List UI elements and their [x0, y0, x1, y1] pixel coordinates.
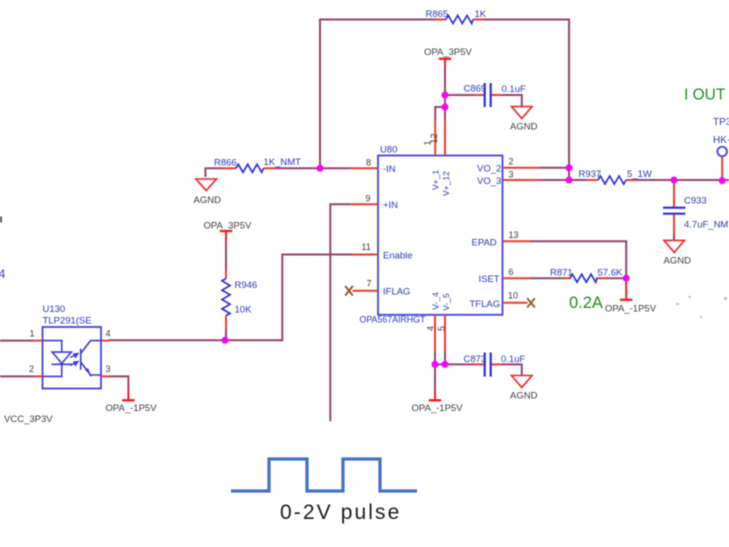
- svg-text:VO_3: VO_3: [477, 176, 501, 187]
- svg-text:14: 14: [0, 267, 6, 281]
- svg-text:4: 4: [426, 326, 436, 331]
- svg-text:2: 2: [509, 157, 514, 167]
- svg-text:4: 4: [106, 329, 111, 339]
- node junction C869 upper: [442, 92, 449, 99]
- svg-text:IFLAG: IFLAG: [383, 286, 410, 297]
- power OPA_-1P5V at R871: [605, 278, 657, 314]
- svg-text:0.2A: 0.2A: [569, 294, 603, 312]
- wire U130 pin2 input: [0, 375, 35, 377]
- svg-text:R866: R866: [214, 158, 237, 169]
- U80 pin 11 Enable: [352, 242, 413, 261]
- svg-text:TP3: TP3: [713, 117, 729, 128]
- U130 pin numbers: [29, 329, 111, 375]
- svg-text:ISET: ISET: [479, 274, 500, 285]
- op-amp U80 body: [360, 145, 503, 325]
- U80 pin 7 IFLAG with no-connect X: [345, 279, 410, 298]
- power OPA_-1P5V below U80: [412, 389, 464, 414]
- node junction VO_3: [566, 177, 573, 184]
- svg-text:3: 3: [106, 364, 111, 374]
- node junction R946 bottom: [222, 337, 229, 344]
- svg-text:57.6K: 57.6K: [598, 268, 623, 279]
- svg-text:1K: 1K: [475, 9, 487, 20]
- wire Enable net from U130 pin4: [109, 255, 352, 341]
- wire feedback loop top (R865 net): [320, 20, 569, 181]
- wire ISET to R871: [530, 277, 564, 279]
- wire U130 pin1 input: [0, 340, 35, 342]
- U80 pin 2 VO_2: [477, 157, 540, 175]
- wire +IN net vertical: [330, 204, 350, 421]
- wire U130 pin3 to power: [109, 376, 129, 390]
- svg-text:0.1uF: 0.1uF: [502, 84, 526, 95]
- svg-text:10: 10: [508, 291, 518, 301]
- wire R937 to output node: [635, 179, 729, 181]
- svg-text:AGND: AGND: [664, 256, 692, 267]
- svg-text:TFLAG: TFLAG: [470, 299, 501, 310]
- svg-text:13: 13: [509, 230, 519, 240]
- svg-text:V+_12: V+_12: [441, 171, 451, 196]
- svg-text:I OUT: I OUT: [684, 87, 726, 104]
- resistor R937: [579, 169, 652, 184]
- ground AGND near C869: [510, 107, 538, 133]
- node junction R866/pin8/feedback: [317, 165, 324, 172]
- pulse waveform 0-2V: [231, 459, 417, 491]
- resistor R866: [214, 157, 301, 172]
- U80 pin 4 V- bottom: [426, 292, 441, 351]
- svg-text:AGND: AGND: [510, 122, 538, 133]
- svg-text:EPAD: EPAD: [472, 237, 497, 248]
- U80 pin 5 V- bottom: [436, 293, 451, 351]
- wire U80 bottom pins to C873 net: [435, 351, 522, 390]
- capacitor C933 vertical: [663, 184, 729, 241]
- svg-text:11: 11: [362, 242, 371, 252]
- svg-text:1: 1: [30, 329, 35, 339]
- node junction TP: [719, 177, 726, 184]
- svg-text:V+_1: V+_1: [431, 170, 441, 190]
- svg-text:12: 12: [429, 133, 439, 143]
- U80 pin 9 +IN: [351, 194, 399, 212]
- svg-text:C873: C873: [464, 354, 487, 365]
- power OPA_3P5V above C869: [424, 47, 473, 67]
- svg-text:2: 2: [29, 364, 34, 374]
- U130 LED (input diode): [43, 341, 73, 377]
- watermark specks: [676, 296, 727, 318]
- svg-text:-IN: -IN: [383, 164, 396, 175]
- capacitor C869: [464, 83, 526, 107]
- svg-text:0-2V pulse: 0-2V pulse: [280, 501, 401, 524]
- svg-text:V-_4: V-_4: [430, 292, 440, 310]
- svg-text:R937: R937: [579, 169, 602, 180]
- U130 pin stubs: [35, 341, 109, 377]
- svg-text:HK-3: HK-3: [713, 135, 729, 146]
- svg-text:0.1uF: 0.1uF: [501, 354, 525, 365]
- U80 pin 12 V+ top: [429, 119, 451, 196]
- node junction U80 pin4: [432, 361, 439, 368]
- wire C869 net: [435, 66, 522, 119]
- capacitor C873: [464, 353, 526, 377]
- wire VO_3 to R937: [540, 179, 589, 181]
- svg-text:OPA567AIRHGT: OPA567AIRHGT: [360, 315, 426, 325]
- wire R871 to EPAD junction: [606, 277, 626, 279]
- svg-text:5: 5: [436, 326, 446, 331]
- U80 pin 10 TFLAG with no-connect X: [470, 291, 535, 310]
- svg-text:4.7uF_NMT: 4.7uF_NMT: [684, 220, 729, 231]
- svg-text:OPA_-1P5V: OPA_-1P5V: [106, 403, 158, 414]
- ground AGND near R866: [194, 179, 222, 206]
- svg-text:R946: R946: [235, 280, 258, 291]
- node junction R871/EPAD: [623, 275, 630, 282]
- svg-text:Enable: Enable: [383, 250, 413, 261]
- svg-text:OPA_-1P5V: OPA_-1P5V: [412, 403, 464, 414]
- svg-text:5_1W: 5_1W: [627, 169, 652, 180]
- wire C933 branch: [673, 180, 675, 206]
- U80 pin 3 VO_3: [477, 170, 540, 187]
- svg-text:+IN: +IN: [383, 200, 398, 211]
- wire EPAD net: [530, 241, 626, 278]
- svg-text:U130: U130: [43, 304, 66, 315]
- test point TP3 HK circle: [713, 117, 729, 181]
- svg-text:C933: C933: [684, 196, 707, 207]
- U130 light arrows: [71, 354, 78, 366]
- wire VO_2: [540, 167, 569, 169]
- U80 pin 13 EPAD: [472, 230, 531, 248]
- svg-text:10K: 10K: [235, 305, 253, 316]
- power OPA_3P5V above R946: [204, 221, 253, 242]
- node junction U80 pin5: [442, 361, 449, 368]
- node junction C933: [671, 177, 678, 184]
- power OPA_-1P5V at U130 pin3: [106, 390, 158, 415]
- resistor R871: [550, 268, 623, 283]
- svg-text:R871: R871: [550, 268, 573, 279]
- resistor R946 vertical: [222, 241, 257, 341]
- svg-text:AGND: AGND: [510, 391, 538, 402]
- svg-text:3: 3: [509, 170, 514, 180]
- svg-text:R865: R865: [426, 9, 449, 20]
- optocoupler U130 body: [43, 304, 102, 389]
- node junction pin1 branch: [442, 104, 449, 111]
- svg-text:V-_5: V-_5: [441, 293, 451, 311]
- ground AGND near C873: [510, 376, 538, 402]
- U80 pin 8 -IN: [350, 158, 396, 175]
- svg-text:U80: U80: [380, 145, 397, 156]
- svg-text:8: 8: [366, 158, 371, 168]
- svg-text:OPA_-1P5V: OPA_-1P5V: [605, 304, 657, 315]
- node junction VO_2: [566, 164, 573, 171]
- svg-text:VCC_3P3V: VCC_3P3V: [4, 414, 53, 425]
- wire R866 to pin8: [205, 168, 350, 177]
- svg-text:VO_2: VO_2: [477, 164, 501, 175]
- svg-text:TLP291(SE: TLP291(SE: [43, 316, 92, 327]
- svg-text:1K_NMT: 1K_NMT: [264, 157, 302, 168]
- tiny mark left edge: [0, 217, 2, 223]
- svg-text:AGND: AGND: [194, 195, 222, 206]
- U130 phototransistor: [81, 341, 101, 377]
- svg-text:OPA_3P5V: OPA_3P5V: [424, 47, 473, 58]
- svg-text:6: 6: [509, 267, 514, 277]
- svg-text:7: 7: [367, 279, 372, 289]
- svg-text:9: 9: [366, 194, 371, 204]
- resistor R865: [426, 9, 487, 24]
- U80 pin 1 V+ top: [423, 119, 441, 190]
- ground AGND near C933: [664, 240, 692, 266]
- U80 pin 6 ISET: [479, 267, 531, 285]
- svg-text:C869: C869: [464, 84, 487, 95]
